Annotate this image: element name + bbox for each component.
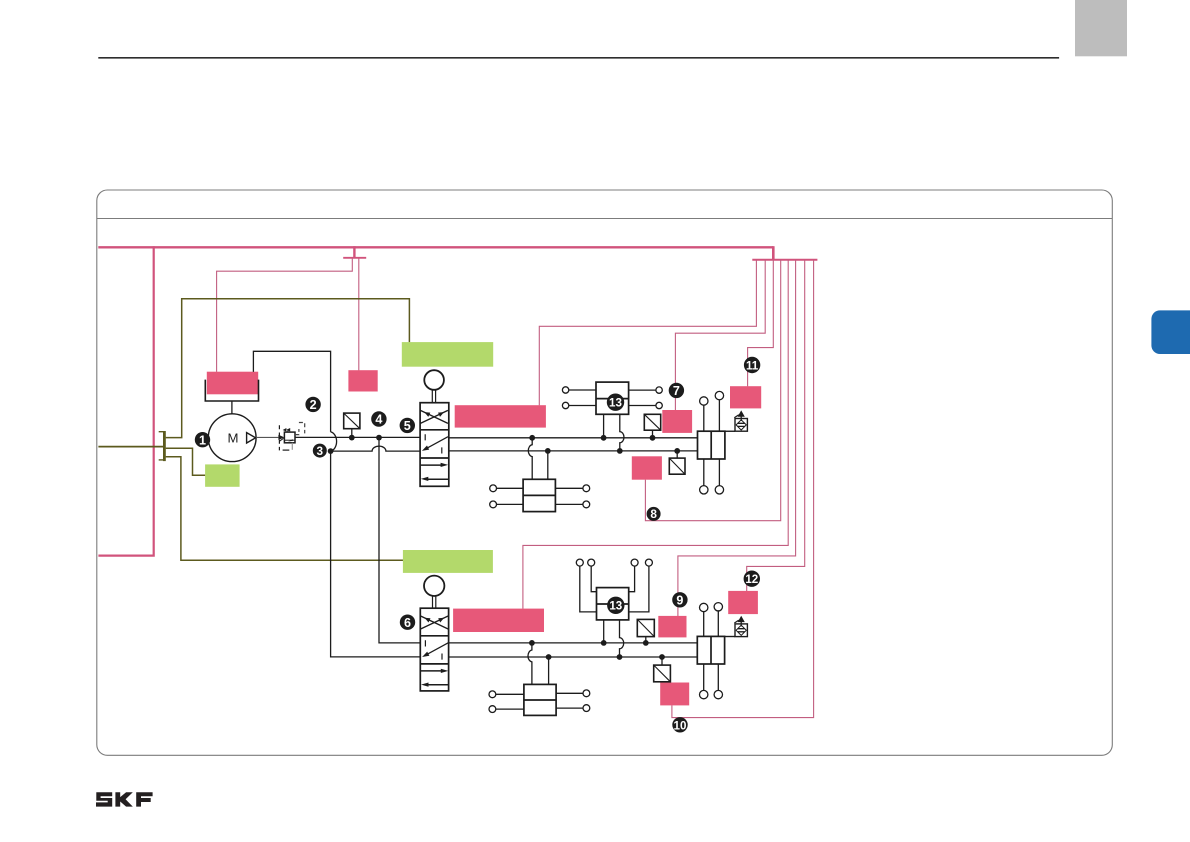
wire feed A to metering block 2 xyxy=(528,643,532,685)
wire feed B to metering block xyxy=(547,451,549,479)
valve V5 gauge stem xyxy=(432,390,435,403)
wire pink feeder to manifold bus xyxy=(772,246,775,260)
injector block J2 xyxy=(697,636,724,664)
wire node 4 down to valve 6 xyxy=(379,438,420,643)
J2 stems and ports xyxy=(704,610,719,690)
node CV2 junction xyxy=(674,448,680,454)
injector block J1 xyxy=(698,431,725,459)
J1 stems and ports xyxy=(704,400,720,486)
wire olive inlet line xyxy=(98,446,163,448)
pink label 5 xyxy=(455,405,546,427)
svg-text:4: 4 xyxy=(375,413,382,427)
pink label reservoir xyxy=(207,372,258,395)
relief valve RV2 xyxy=(725,636,735,638)
wire leader to label 7 xyxy=(675,260,765,411)
valve V5 top cell X arrows xyxy=(420,410,448,423)
svg-text:10: 10 xyxy=(674,720,687,733)
wire leader to label 5 xyxy=(539,260,756,406)
pink label 9 xyxy=(658,616,686,638)
valve V5 body xyxy=(420,403,449,487)
MB1 ports xyxy=(490,485,497,492)
D13a legs xyxy=(603,414,605,438)
metering block MB1 xyxy=(523,479,555,511)
svg-text:8: 8 xyxy=(650,507,657,521)
wire pink left drop xyxy=(98,246,153,555)
wire olive branch to valve 6 label xyxy=(166,457,403,560)
valve V6 mid cell path xyxy=(425,640,448,659)
badge 7 xyxy=(669,383,684,398)
badge 13 lower xyxy=(607,597,624,614)
wire pink manifold bus xyxy=(752,259,817,261)
svg-text:2: 2 xyxy=(310,398,317,412)
check valve CV0 xyxy=(344,413,360,429)
wire main lower line valve6 to doser xyxy=(449,656,698,658)
node feed B junction xyxy=(545,448,551,454)
node tap T on bus xyxy=(353,246,355,258)
badge 9 xyxy=(672,592,687,607)
check valve CV1 xyxy=(644,414,660,430)
wire pink supply bus xyxy=(98,246,773,248)
svg-text:6: 6 xyxy=(404,616,411,630)
distributor D13b block xyxy=(597,588,629,620)
reservoir bracket xyxy=(205,380,258,401)
svg-text:5: 5 xyxy=(404,419,411,433)
green label valve 5 xyxy=(402,342,493,367)
svg-text:7: 7 xyxy=(673,384,680,398)
wire leader to label 8 xyxy=(645,260,780,521)
valve V5 lower arrows xyxy=(421,464,442,466)
node D13b right leg junction xyxy=(617,654,623,660)
pink label 11 xyxy=(730,386,761,408)
badge 12 xyxy=(744,571,760,587)
SKF logo xyxy=(96,792,153,806)
distributor D13a block xyxy=(596,382,629,414)
wire main lower line valve5 to doser xyxy=(449,450,698,452)
pink label 2 xyxy=(348,370,377,391)
wire leader to label 9 xyxy=(678,260,796,616)
node CV3 junction xyxy=(643,640,649,646)
badge 2 xyxy=(305,397,320,412)
pink label 12 xyxy=(728,591,758,614)
svg-text:13: 13 xyxy=(609,397,622,410)
wire node 3 down to valve 6 xyxy=(331,451,421,657)
gauge G5 circle xyxy=(424,370,444,390)
wire olive branch to pump label xyxy=(166,448,206,475)
D13b legs xyxy=(603,620,605,643)
gauge G6 circle xyxy=(424,576,444,596)
badge 3 xyxy=(313,444,327,458)
node D13a right leg junction xyxy=(617,448,623,454)
check valve CV2 xyxy=(669,458,685,474)
badge 10 xyxy=(672,717,687,732)
wire leader to label 6 xyxy=(523,260,788,609)
valve V6 body xyxy=(420,608,448,691)
svg-text:3: 3 xyxy=(317,444,324,458)
coupling flange bar xyxy=(163,431,166,461)
wire reservoir to pressure switch branch xyxy=(253,351,330,432)
pressure regulator body xyxy=(284,432,295,443)
D13b top ports xyxy=(576,559,583,566)
wire leader to label 12 xyxy=(747,260,805,591)
regulator inlet arrowhead xyxy=(278,435,284,440)
node 3 junction xyxy=(328,448,334,454)
node CV1 junction xyxy=(650,435,656,441)
green label valve 6 xyxy=(403,550,493,573)
pink label 8 xyxy=(632,456,662,479)
wire leader to reservoir label xyxy=(217,258,353,372)
motor M1 pump circle xyxy=(208,414,256,462)
pink label 7 xyxy=(662,410,692,433)
green label pump unit xyxy=(205,464,240,486)
valve V6 gauge stem xyxy=(433,596,436,608)
wire main upper line valve6 to doser xyxy=(449,642,698,644)
D13a ports xyxy=(562,387,568,393)
node D13b left leg junction xyxy=(601,640,607,646)
node CV4 junction xyxy=(659,654,665,660)
svg-text:M: M xyxy=(228,431,239,446)
pink label 6 xyxy=(453,609,544,632)
svg-text:13: 13 xyxy=(609,600,622,613)
svg-text:9: 9 xyxy=(676,593,683,607)
relief valve RV1 xyxy=(725,430,735,432)
wire pump outlet xyxy=(256,436,278,438)
pump triangle xyxy=(247,433,256,443)
pink label 10 xyxy=(660,683,689,706)
valve V6 lower arrows xyxy=(421,670,442,672)
regulator dashed pilot lines xyxy=(278,425,280,450)
check valve CV3 xyxy=(637,619,654,636)
metering block MB2 xyxy=(524,684,556,715)
wire leader to label 2 xyxy=(358,258,360,371)
badge 4 xyxy=(371,411,386,426)
node feed A junction xyxy=(529,435,535,441)
wire crossover jog at node 3 xyxy=(331,432,337,451)
wire regulator to valve 5 xyxy=(295,436,420,438)
badge 13 upper xyxy=(607,394,624,411)
svg-text:11: 11 xyxy=(746,359,759,372)
node feed A2 junction xyxy=(529,640,535,646)
wire main upper line valve5 to doser xyxy=(449,437,698,439)
wire feed B to metering block 2 xyxy=(548,657,550,684)
badge 8 xyxy=(647,507,661,521)
wire lower supply from node 3 to valve 5 with hump xyxy=(331,446,421,451)
wire leader to label 11 xyxy=(748,260,774,387)
regulator internal arrow xyxy=(288,439,293,441)
check valve CV4 xyxy=(654,665,671,682)
MB2 ports xyxy=(489,691,496,698)
svg-text:12: 12 xyxy=(745,573,758,586)
regulator knob bowtie xyxy=(283,428,291,432)
valve V6 top cell X arrows xyxy=(421,616,449,629)
badge 11 xyxy=(744,357,760,373)
wire reservoir to motor xyxy=(231,401,233,414)
node D13a left leg junction xyxy=(601,435,607,441)
wire olive branch to valve 5 label xyxy=(166,299,410,438)
node CV0 stem junction xyxy=(349,435,355,441)
badge 5 xyxy=(400,418,415,433)
badge 6 xyxy=(400,615,415,630)
wire leader to label 10 xyxy=(672,260,814,718)
node 4 junction xyxy=(376,435,382,441)
wire feed A to metering block xyxy=(528,438,532,480)
node feed B2 junction xyxy=(546,654,552,660)
badge 1 xyxy=(195,432,210,447)
svg-text:1: 1 xyxy=(199,433,206,447)
valve V5 mid cell path xyxy=(425,434,448,453)
